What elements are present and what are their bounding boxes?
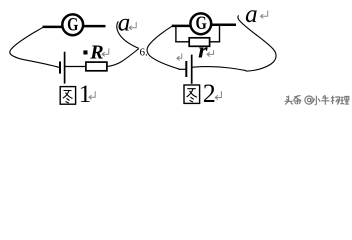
battery cell (fig2) short plate (185, 61, 187, 77)
wire: fig1 top-right thick lead (83, 25, 105, 28)
@ (305, 96, 313, 104)
caption 图 (fig1) drawn glyph (60, 87, 75, 105)
wire: fig1 battery to resistor (65, 66, 86, 68)
条 (293, 95, 301, 104)
battery cell (fig2) long plate (191, 55, 193, 84)
wire: fig2 left curved side (147, 26, 179, 69)
resistor R (fig1) box (86, 62, 107, 71)
lone paragraph mark (fig2 left) (177, 54, 182, 61)
watermark 头条@小牛物理 (drawn gray strokes) (285, 95, 349, 104)
wire: fig2 battery right lead (193, 67, 247, 71)
battery cell (fig1) long plate (64, 52, 66, 84)
shunt branch bottom-left wire (fig2) (175, 41, 189, 43)
svg-text:G: G (195, 14, 206, 34)
paragraph mark after r (207, 50, 214, 56)
svg-text:6.: 6. (140, 46, 149, 58)
battery cell (fig1) short plate (59, 62, 61, 74)
wire: fig1 left curved side (10, 27, 59, 67)
wire: fig1 top-left thick lead (43, 26, 63, 29)
svg-text:1: 1 (79, 79, 92, 108)
shunt branch right vertical wire (fig2) (219, 26, 221, 42)
paragraph mark after R (102, 48, 109, 56)
理 (340, 97, 349, 105)
wire: fig1 right curved side lower (to resistor) (107, 49, 139, 67)
caption 图 (fig2) drawn glyph (184, 85, 200, 103)
svg-text:G: G (67, 15, 78, 35)
shunt branch bottom-right wire (fig2) (210, 41, 221, 43)
shunt branch left vertical wire (fig2) (175, 27, 177, 42)
小 (313, 96, 320, 105)
物 (331, 96, 340, 105)
galvanometer G (fig1) circle (62, 14, 83, 35)
paragraph mark after a (fig2) (261, 11, 268, 19)
头 (285, 96, 293, 105)
junction square dot (fig1) (83, 50, 87, 54)
resistor r (fig2) box (189, 38, 209, 47)
svg-text:2: 2 (203, 79, 216, 108)
wire: fig2 battery left lead (179, 68, 186, 70)
paragraph mark after a (fig1) (129, 22, 136, 30)
wire: fig2 right curved side (238, 15, 276, 71)
paragraph mark after 图2 (215, 91, 221, 100)
svg-text:a: a (245, 1, 258, 28)
svg-text:R: R (89, 42, 103, 64)
paragraph mark after 图1 (89, 91, 95, 99)
wire: fig2 top-left thick lead (172, 25, 191, 28)
galvanometer G (fig2) circle (190, 13, 211, 34)
牛 (321, 95, 329, 104)
wire: fig1 right curved side upper (from a down) (117, 21, 139, 48)
svg-text:a: a (118, 9, 131, 36)
svg-text:r: r (198, 37, 208, 62)
wire: fig2 top-right thick lead (211, 23, 236, 26)
